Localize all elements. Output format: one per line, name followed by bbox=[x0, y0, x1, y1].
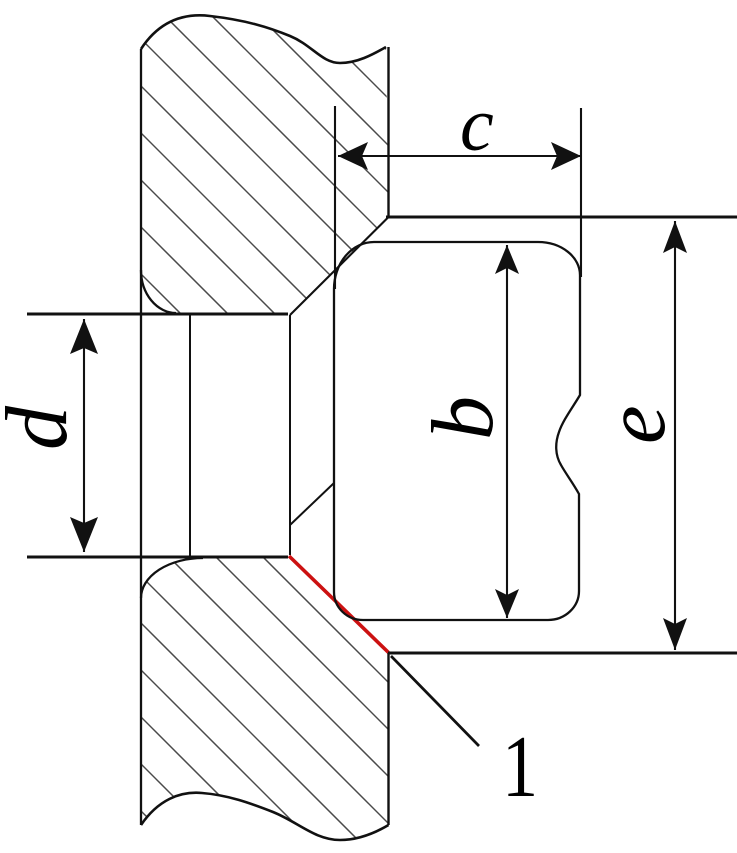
dimension d line bbox=[83, 319, 85, 552]
bevel edge upper bbox=[290, 217, 389, 315]
plate top break wave bbox=[141, 15, 386, 63]
svg-text:d: d bbox=[0, 405, 86, 450]
hole inner line bbox=[189, 315, 191, 557]
arrowhead e bottom bbox=[663, 618, 687, 650]
hole bottom edge with extension bbox=[27, 556, 288, 559]
plate bottom break wave bbox=[141, 793, 389, 840]
plate right edge upper bbox=[387, 47, 389, 217]
arrowhead c right bbox=[551, 142, 581, 170]
flange bottom surface line bbox=[388, 652, 737, 655]
leader line for weld label bbox=[391, 656, 479, 746]
plate right edge lower bbox=[387, 653, 389, 825]
flange top surface line bbox=[386, 216, 737, 219]
hole back edge bbox=[289, 315, 291, 555]
boss head outline bbox=[334, 242, 580, 620]
dimension c extension left bbox=[334, 106, 336, 289]
dimension c line bbox=[338, 155, 581, 157]
arrowhead b top bbox=[495, 245, 519, 274]
weld seam red bbox=[289, 556, 389, 653]
hole top edge with extension bbox=[27, 313, 288, 316]
svg-text:1: 1 bbox=[502, 718, 538, 815]
fillet bottom hole corner bbox=[141, 558, 203, 598]
hatching bottom plate section bbox=[100, 394, 460, 853]
arrowhead d bottom bbox=[70, 517, 98, 552]
plate left edge bbox=[140, 49, 142, 825]
svg-text:e: e bbox=[586, 405, 683, 444]
dimension e line bbox=[674, 221, 676, 650]
boss chamfer edge bbox=[290, 483, 334, 525]
fillet top hole corner bbox=[141, 270, 176, 313]
arrowhead e top bbox=[663, 221, 687, 253]
dimension c extension right bbox=[580, 108, 582, 277]
dimension b line bbox=[506, 245, 508, 618]
arrowhead d top bbox=[70, 319, 98, 354]
svg-text:b: b bbox=[415, 396, 512, 440]
svg-text:c: c bbox=[460, 83, 494, 167]
hatching top plate section bbox=[100, 0, 460, 593]
arrowhead c left bbox=[338, 142, 368, 170]
arrowhead b bottom bbox=[495, 589, 519, 618]
